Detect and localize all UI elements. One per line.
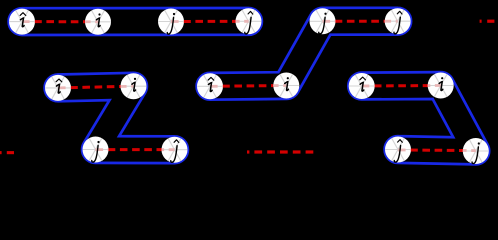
node j D2 <box>310 8 336 34</box>
label i D2 <box>285 77 289 90</box>
stray dash bottom middle <box>247 150 313 153</box>
label j D1 <box>167 13 175 34</box>
label j-hat DB <box>171 140 179 162</box>
propagator dash D1 i-hat to i <box>22 20 98 23</box>
wire ribbon D1 top-left stadium <box>9 8 262 35</box>
node i-hat D2 <box>197 73 223 99</box>
node j-hat D1 <box>236 8 262 34</box>
label j DB <box>92 141 100 162</box>
label i D3 <box>439 77 443 90</box>
node i-hat D1 <box>9 9 35 35</box>
label i D1 <box>96 13 100 26</box>
label i-hat DB <box>56 79 62 93</box>
propagator dash D1 j to j-hat <box>171 20 249 23</box>
propagator dash D3 j-hat to j <box>398 148 476 152</box>
node j-hat DB <box>162 137 188 163</box>
node i D1 <box>85 9 111 35</box>
wire ribbon D2 mid pair to top-right pair <box>197 8 411 100</box>
label j-hat D3 <box>394 140 402 162</box>
propagator dash D2 i-hat to i <box>210 84 286 88</box>
label i-hat D1 <box>20 13 26 27</box>
node j D3 <box>463 138 489 164</box>
stray dash left edge <box>0 151 14 154</box>
propagator dash D2 j to j-hat <box>323 20 398 23</box>
label i-hat D2 <box>208 77 214 91</box>
node i D2 <box>273 73 299 99</box>
propagator dash DB i-hat to i <box>58 86 134 88</box>
propagator dash DB j to j-hat <box>96 148 175 151</box>
node j-hat D2 <box>385 8 411 34</box>
node j D1 <box>158 9 184 35</box>
ghost pink dashes over disks <box>22 21 476 150</box>
ghost spokes inside disks <box>9 10 489 162</box>
label j D2 <box>319 13 327 34</box>
node i D3 <box>428 73 454 99</box>
node i-hat DB <box>45 75 71 101</box>
node i DB <box>121 73 147 99</box>
node j-hat D3 <box>385 137 411 163</box>
wire ribbon D3 right <box>348 72 489 164</box>
label i-hat D3 <box>360 77 366 91</box>
wire ribbon DB middle-left Z <box>45 73 188 163</box>
node i-hat D3 <box>349 73 375 99</box>
stray dash right edge <box>480 20 495 23</box>
propagator dash D3 i-hat to i <box>362 84 441 88</box>
label j-hat D2 <box>394 11 402 33</box>
label i DB <box>132 78 136 91</box>
node j DB <box>83 137 109 163</box>
label j D3 <box>472 142 480 163</box>
label j-hat D1 <box>245 11 253 33</box>
